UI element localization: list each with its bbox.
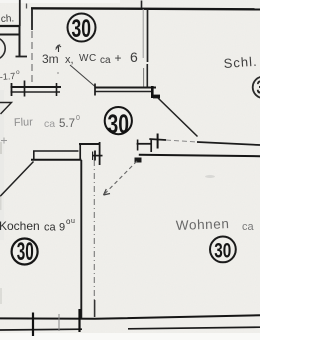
door hinge blob (153, 95, 160, 99)
jamb hline y143.8 (137, 143, 152, 145)
Kitchen badge circle 30 (12, 238, 38, 266)
Wohnen top wall lower line (139, 155, 260, 156)
Schl badge circle 30 (clipped right) (253, 77, 275, 99)
svg-text:30: 30 (17, 238, 34, 266)
annotation line from label to door (70, 65, 95, 87)
left edge smudges (0, 142, 2, 154)
wall vertical x19.5 (19, 26, 21, 57)
jamb tick x137.6 (137, 140, 139, 151)
bottom exterior wall upper line (0, 315, 260, 319)
wall corner dark segment x32 (31, 9, 33, 30)
WC bottom wall left part (11, 86, 62, 88)
partial circle badge at left edge (0, 37, 5, 59)
svg-text:W: W (79, 53, 89, 64)
hinge blob (135, 158, 142, 163)
svg-text:5.7: 5.7 (59, 118, 75, 130)
Flur badge circle 30 (105, 107, 132, 139)
label Kochen ca 9.0 (0, 217, 75, 234)
WC / Schl divider wall upper (147, 9, 149, 62)
tick at x22 y56 (16, 56, 28, 58)
svg-text:Schl.: Schl. (223, 54, 258, 71)
ink speck (57, 72, 59, 74)
Wohnen top wall upper line (149, 139, 166, 140)
tick above top wall at x141.5 (141, 1, 143, 9)
Wohnen badge circle 30 (210, 237, 236, 263)
label Flur ca 5.7 (14, 115, 80, 130)
bottom exterior wall lower line left (0, 328, 82, 331)
svg-text:o: o (16, 69, 20, 76)
svg-text:-1.7: -1.7 (0, 71, 16, 82)
dashed door arrow to living room (105, 161, 137, 194)
svg-text:ca: ca (44, 118, 55, 130)
svg-text:0: 0 (76, 115, 80, 122)
mini tick x92.6 (92, 152, 94, 161)
svg-text:9: 9 (59, 222, 65, 234)
door swing to Schlafzimmer (158, 98, 198, 137)
left edge gray wash (0, 90, 4, 240)
kitchen/living wall solid left line (80, 160, 82, 318)
top scan margin (0, 0, 120, 3)
door hinge bar (151, 96, 160, 98)
small check mark (56, 45, 61, 50)
wall top-left horizontal upper (0, 25, 21, 27)
svg-text:6: 6 (130, 49, 138, 65)
tick x95 (94, 84, 96, 96)
exterior top wall (31, 8, 260, 9)
WC bottom wall right part (95, 87, 157, 89)
svg-text:u: u (71, 218, 75, 225)
bottom exterior wall lower line right (128, 327, 260, 329)
tick x79.5 (78, 309, 80, 332)
bottom scan margin (lighter) (0, 333, 260, 340)
hall bottom wall step: upper line L1 (79, 143, 100, 145)
svg-text:30: 30 (214, 240, 231, 263)
label Wohnen ca (176, 216, 255, 233)
door mark at left edge of hall (0, 103, 12, 115)
divider faint second line lower (143, 68, 145, 87)
jamb tick x157.6 (157, 134, 159, 149)
faint plus mark (1, 138, 7, 144)
svg-text:x,: x, (65, 54, 74, 66)
jamb vertical x151.2 (150, 140, 152, 153)
svg-text:ca: ca (242, 221, 255, 233)
svg-text:3m: 3m (42, 52, 59, 66)
svg-text:30: 30 (72, 15, 92, 43)
axis line solid top tick (94, 151, 96, 161)
svg-text:Kochen: Kochen (0, 219, 40, 233)
faint smudge (205, 175, 215, 178)
divider faint second line upper (142, 9, 144, 58)
WC badge circle 30 (68, 14, 96, 44)
tick x24.5 (24, 81, 26, 97)
svg-text:30: 30 (257, 78, 261, 98)
door jamb thick tick x152 (151, 86, 154, 98)
step vertical x80.2 (79, 143, 81, 161)
svg-text:ca: ca (44, 222, 57, 234)
tick x33 (32, 313, 34, 337)
step wall line L3 (31, 159, 82, 161)
svg-text:Flur: Flur (14, 116, 34, 129)
faint tick x59 (58, 314, 60, 331)
step wall line L2 (33, 150, 79, 152)
tick x56.5 (56, 83, 58, 96)
step vertical x33.8 (33, 151, 35, 160)
corner vertical x99.6 (99, 142, 101, 165)
tick hline y155.6 (92, 155, 103, 157)
svg-text:Wohnen: Wohnen (176, 216, 230, 233)
small corner tick x26 (26, 4, 28, 9)
faint west wall of WC room x32 (31, 9, 33, 87)
small up arrow over 3m (56, 45, 61, 52)
svg-text:ca: ca (100, 55, 111, 66)
label '3m x, WC ca + 6' (42, 49, 138, 66)
WC / Schl divider wall lower (146, 64, 148, 88)
kitchen/living wall dashed axis line (93, 160, 95, 302)
svg-text:30: 30 (108, 109, 130, 139)
wall top-left horizontal lower (0, 34, 19, 36)
kitchen door swing diagonal (0, 162, 34, 197)
tick x11.5 (11, 83, 13, 96)
svg-text:ch.: ch. (1, 13, 15, 25)
axis line solid bottom part (94, 300, 96, 317)
wall vertical x20 from top edge (19, 0, 21, 26)
svg-text:+: + (115, 51, 122, 65)
svg-text:C: C (89, 53, 96, 64)
